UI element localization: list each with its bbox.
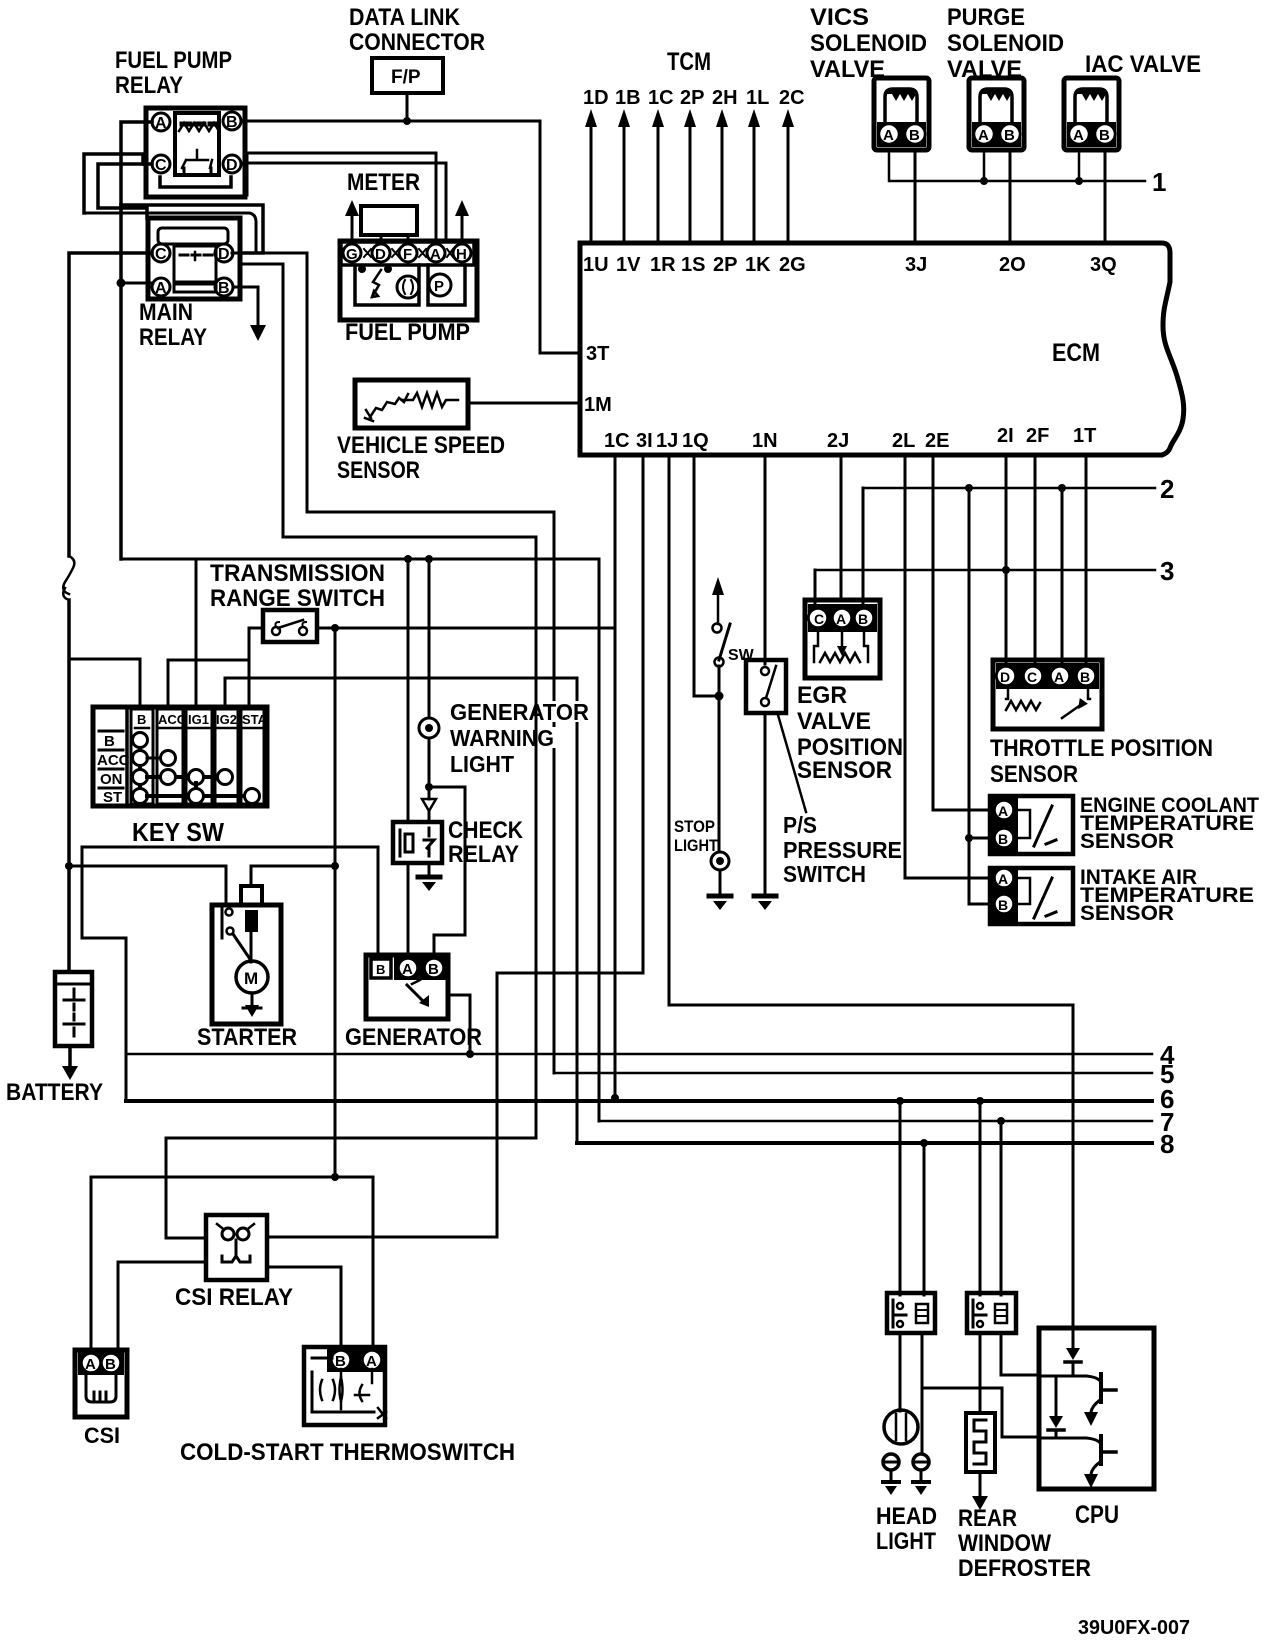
node DLC junction [403, 117, 411, 125]
key switch box [93, 707, 267, 806]
key switch contacts row ST [147, 783, 260, 804]
svg-text:A: A [883, 127, 894, 144]
head light terminal circles [883, 1454, 929, 1470]
svg-text:LIGHT: LIGHT [450, 751, 514, 777]
node TPS A junction [1058, 484, 1066, 492]
head light label [876, 1503, 937, 1555]
svg-text:D: D [218, 246, 230, 263]
fuel pump inner left sub-box [355, 265, 419, 305]
svg-text:B: B [105, 1356, 116, 1373]
TCM label [667, 48, 711, 76]
main relay label [139, 299, 207, 351]
svg-text:DEFROSTER: DEFROSTER [958, 1555, 1091, 1582]
wire CSI-A to TRS corridor and thermoswitch A [91, 1177, 373, 1347]
node 3 label [1160, 556, 1174, 586]
svg-text:1S: 1S [681, 254, 705, 276]
svg-text:RELAY: RELAY [115, 72, 183, 99]
check relay box [393, 822, 442, 863]
main relay pin B [215, 278, 233, 297]
generator label [345, 1024, 482, 1051]
svg-text:1M: 1M [584, 394, 612, 416]
wire head relay coil pin down [921, 1333, 924, 1454]
EGR valve position sensor label [797, 682, 903, 784]
wire FPR-A corridor to key switch row [121, 558, 599, 561]
wire head relay to bulb [899, 1333, 902, 1411]
arrow TCM 1U-1D [585, 109, 597, 243]
node 1C line6 junction [611, 1094, 619, 1102]
svg-text:BATTERY: BATTERY [6, 1079, 103, 1106]
CPU label [1075, 1501, 1119, 1529]
wire CSI relay contact right to thermoswitch B [267, 1267, 341, 1347]
EGR valve position sensor box [805, 600, 880, 678]
wire battery line lower with break [67, 600, 71, 972]
fuel pump pin G [343, 244, 361, 263]
TCM pin labels above arrows [583, 87, 805, 109]
vehicle speed sensor box [355, 380, 468, 428]
generator warning light [419, 718, 439, 738]
svg-text:B: B [218, 280, 230, 297]
svg-text:PURGE: PURGE [947, 4, 1025, 31]
svg-text:2J: 2J [827, 430, 849, 452]
svg-text:1J: 1J [656, 430, 678, 452]
node head relay line6 junction [896, 1097, 904, 1105]
wire gen-B tee into light wire [429, 786, 465, 789]
wire x126 corridor [125, 938, 128, 1101]
main relay pin D [215, 244, 233, 263]
svg-text:1C: 1C [604, 430, 630, 452]
node defroster line6 junction [976, 1097, 984, 1105]
svg-text:G: G [346, 246, 358, 263]
svg-text:B: B [104, 733, 115, 750]
wire key sw ACC to TRS-left line [168, 660, 249, 707]
wire VICS B to ECM 3J [914, 150, 917, 243]
key switch contacts row ON [147, 770, 233, 785]
starter solenoid top rect [241, 886, 262, 905]
diode above check relay [422, 799, 436, 811]
wire generator pin B up to warning light [434, 787, 465, 955]
wire P/S switch down to ground [764, 713, 767, 895]
svg-text:2L: 2L [892, 430, 915, 452]
svg-text:2I: 2I [997, 425, 1014, 447]
node 4 label [1160, 1040, 1175, 1070]
arrow up left of meter [345, 200, 359, 241]
svg-text:3J: 3J [905, 254, 927, 276]
wire corridor x554 down to line 5 [553, 512, 556, 1073]
svg-text:B: B [137, 712, 146, 727]
svg-text:B: B [1004, 127, 1015, 144]
arrow TCM 1K-1L [748, 109, 760, 243]
wire line-B corridor to CSI relay [166, 537, 536, 1238]
ground stop light [709, 896, 731, 910]
node line4 generator junction [466, 1050, 474, 1058]
wire meter stubs [381, 235, 408, 242]
svg-text:1K: 1K [745, 254, 771, 276]
wire purge A stub [983, 150, 986, 181]
svg-text:SENSOR: SENSOR [990, 761, 1078, 788]
wire warning light to check relay [428, 559, 431, 799]
wire TPS A to line 2 [1061, 488, 1064, 663]
svg-text:H: H [456, 246, 467, 263]
node IAC A junction [1075, 177, 1083, 185]
svg-text:SOLENOID: SOLENOID [810, 30, 927, 57]
wire IAC A stub [1078, 150, 1081, 181]
svg-text:1C: 1C [648, 87, 674, 109]
fuel pump pressure circle [429, 274, 451, 296]
wire ECM 1Q down to stop light line [694, 455, 715, 696]
svg-text:KEY SW: KEY SW [132, 817, 224, 847]
main relay inner detail [174, 246, 216, 292]
svg-text:COLD-START THERMOSWITCH: COLD-START THERMOSWITCH [180, 1439, 515, 1466]
wire diode to check relay [428, 811, 431, 822]
line 4 [126, 1053, 1152, 1056]
wire TRS branch down [334, 628, 337, 1177]
wire TPS D from line 3 [1005, 570, 1008, 663]
generator warning light label [447, 699, 592, 777]
svg-text:B: B [1099, 127, 1110, 144]
node 1Q stop light junction [715, 692, 724, 701]
break symbol on battery line [63, 556, 74, 600]
wire CSI A down [90, 1177, 93, 1350]
svg-text:C: C [155, 246, 167, 263]
line 2 [863, 487, 1155, 490]
svg-text:1U: 1U [583, 254, 609, 276]
wire C-outer loop into D row [84, 213, 256, 253]
fuel pump relay label [115, 47, 232, 99]
intake air temperature sensor label [1080, 866, 1254, 925]
node TRS corridor junction [331, 862, 339, 870]
svg-text:3T: 3T [586, 343, 609, 365]
main relay pin C [152, 244, 170, 263]
wire ECM 2E to ECT A [933, 455, 990, 810]
wire sensor ground from line 2 to ECT B and IAT B [969, 488, 990, 904]
svg-text:TRANSMISSION: TRANSMISSION [210, 560, 385, 587]
wire head relay contact from line 8 [923, 1143, 926, 1295]
fuel pump relay pin B [223, 112, 241, 131]
stop light bulb [711, 852, 729, 870]
line 3 [815, 569, 1155, 572]
svg-text:P: P [434, 278, 444, 295]
PURGE solenoid valve [969, 78, 1024, 150]
svg-text:VEHICLE SPEED: VEHICLE SPEED [337, 432, 505, 459]
wire A-net to main relay D [121, 205, 263, 253]
CPU Q1 base rail [1040, 1375, 1086, 1378]
fuel pump relay box [146, 108, 245, 197]
ECM bottom pin labels [604, 425, 1096, 452]
svg-text:GENERATOR: GENERATOR [450, 699, 589, 725]
fuel pump sender symbol [358, 265, 392, 297]
node check relay junction [425, 555, 433, 563]
line 6 [126, 1099, 1152, 1103]
VICS solenoid valve label [810, 4, 927, 83]
svg-text:F: F [403, 246, 412, 263]
key switch header underlines [135, 727, 263, 730]
main relay pin A [152, 278, 170, 297]
svg-text:METER: METER [347, 169, 420, 196]
fuel pump relay pin A [152, 113, 170, 132]
node 2I junction [1002, 566, 1010, 574]
generator pin A [399, 959, 418, 979]
wire key sw IG1 up corridor [195, 559, 198, 707]
node TRS corridor bottom junction [331, 1173, 339, 1181]
wire fuel pump relay D to fuel pump [241, 163, 446, 241]
throttle position sensor box [993, 660, 1102, 729]
node 1 label [1152, 167, 1166, 197]
data link connector F/P box [372, 58, 443, 93]
node 2 label [1160, 474, 1174, 504]
wire main relay D row to line-A corridor [232, 253, 554, 512]
svg-text:B: B [998, 897, 1008, 913]
wire TRS left to key sw STA [249, 628, 263, 707]
VICS solenoid valve [874, 78, 929, 150]
wire PURGE B to ECM 2O [1009, 150, 1012, 243]
fuel pump relay pin C [152, 155, 170, 174]
wire starter solenoid rect feed [250, 866, 253, 886]
wire ECM 2L to IAT A [905, 455, 990, 878]
svg-text:CSI RELAY: CSI RELAY [175, 1284, 293, 1311]
generator internal symbol [407, 980, 429, 1007]
svg-text:ST: ST [103, 789, 122, 806]
svg-text:B: B [376, 962, 385, 977]
svg-text:REAR: REAR [958, 1505, 1017, 1532]
wire ECM 1N to P/S switch [764, 455, 767, 664]
fuel pump relay pin D [223, 155, 241, 174]
check relay label [446, 817, 528, 868]
arrow TCM 1R-1C [652, 109, 664, 243]
svg-text:PRESSURE: PRESSURE [783, 837, 902, 863]
node 5 label [1160, 1059, 1174, 1089]
svg-text:1Q: 1Q [682, 430, 709, 452]
transmission range switch box [263, 610, 317, 642]
svg-text:CONNECTOR: CONNECTOR [349, 29, 485, 56]
wire defroster contact from line 6 [979, 1101, 982, 1295]
svg-text:THROTTLE POSITION: THROTTLE POSITION [990, 735, 1213, 762]
ground head light left [883, 1470, 899, 1495]
svg-text:F/P: F/P [391, 67, 421, 88]
svg-text:A: A [430, 246, 441, 263]
svg-text:1V: 1V [616, 254, 641, 276]
svg-text:CSI: CSI [84, 1423, 120, 1448]
throttle position sensor label [990, 735, 1213, 788]
svg-text:GENERATOR: GENERATOR [345, 1024, 482, 1051]
wire ECM 1J down to CPU feed [669, 455, 1073, 1348]
wire battery branch to starter [69, 866, 226, 905]
svg-text:ACC: ACC [158, 712, 187, 727]
ECM box [580, 243, 1184, 455]
generator box [366, 955, 448, 1019]
fuel pump relay inner coil box [175, 113, 219, 175]
svg-text:2H: 2H [712, 87, 738, 109]
svg-text:2G: 2G [779, 254, 806, 276]
svg-text:RELAY: RELAY [139, 324, 207, 351]
wire ECM 2F to TPS C [1034, 455, 1037, 663]
arrow below main relay [250, 325, 266, 341]
fuel pump connector box [340, 241, 477, 320]
node defroster line7 junction [997, 1117, 1005, 1125]
IAC valve label [1085, 51, 1201, 78]
svg-text:LIGHT: LIGHT [876, 1528, 936, 1555]
svg-text:C: C [155, 157, 167, 174]
CPU transistor Q2 [1084, 1436, 1116, 1488]
svg-text:DATA LINK: DATA LINK [349, 4, 461, 31]
svg-text:2F: 2F [1026, 425, 1049, 447]
wire VSS to ECM 1M [468, 402, 580, 405]
wire CSI relay contact left to CSI B [118, 1262, 206, 1350]
svg-text:3: 3 [1160, 556, 1174, 586]
head light relay box [887, 1293, 935, 1333]
svg-text:2C: 2C [779, 87, 805, 109]
svg-text:WARNING: WARNING [450, 725, 554, 751]
svg-text:VALVE: VALVE [797, 708, 871, 735]
fuel pump relay inner bottom U [160, 177, 231, 187]
wire fuel pump relay A left and down [121, 122, 152, 559]
node main relay A junction [117, 279, 126, 288]
node head relay line8 junction [920, 1139, 928, 1147]
wire fuel pump relay C left [98, 164, 152, 218]
vehicle speed sensor label [337, 432, 505, 484]
fuel pump pin F [399, 244, 417, 263]
wire EGR C up to line 3 [814, 570, 817, 608]
node 6 label [1160, 1084, 1174, 1114]
wire generator output to line 4 [448, 995, 470, 1054]
svg-text:B: B [226, 114, 238, 131]
transmission range switch label [210, 560, 385, 612]
SW label [728, 647, 755, 664]
wire starter solenoid to TRS corridor [251, 865, 335, 868]
key switch row labels [97, 733, 130, 806]
wire main relay contact to line-B corridor [240, 264, 283, 537]
svg-text:A: A [155, 280, 167, 297]
svg-text:IAC VALVE: IAC VALVE [1085, 51, 1201, 78]
ground below check relay [418, 863, 440, 891]
svg-text:C: C [1027, 669, 1037, 685]
wire battery web left leg [82, 847, 126, 938]
svg-text:39U0FX-007: 39U0FX-007 [1078, 1617, 1190, 1639]
stop light switch [713, 624, 731, 667]
wire line-B top run [283, 536, 536, 539]
wire corridor x599 down to line 7 [598, 559, 601, 1121]
wire key sw IG2 to corridor x577 [225, 678, 577, 707]
svg-text:IG2: IG2 [216, 712, 237, 727]
svg-text:SENSOR: SENSOR [1080, 902, 1174, 925]
svg-text:A: A [978, 127, 989, 144]
CPU diode 2 [1048, 1376, 1064, 1438]
data link connector label [349, 4, 485, 56]
wire element to ground [979, 1472, 982, 1496]
arrow TCM 2G-2C [782, 109, 794, 243]
starter box [212, 905, 281, 1024]
arrow up right of fuel pump [455, 200, 469, 241]
node warning light junction [404, 555, 412, 563]
svg-text:D: D [375, 246, 386, 263]
svg-text:A: A [402, 961, 413, 978]
wire stop light to ground [719, 870, 722, 895]
wire head coil branch to CPU [922, 1388, 1040, 1437]
wire DLC down to B-net [406, 93, 409, 121]
P/S pressure switch label leader [778, 715, 806, 812]
svg-text:LIGHT: LIGHT [674, 836, 719, 855]
svg-text:A: A [366, 1353, 377, 1370]
svg-text:2: 2 [1160, 474, 1174, 504]
svg-text:HEAD: HEAD [876, 1503, 937, 1530]
svg-text:C: C [814, 611, 824, 627]
generator B square pin [371, 959, 391, 978]
svg-text:P/S: P/S [783, 812, 817, 838]
wire gen-B line from battery web [82, 847, 378, 955]
wire main relay A to A-net [121, 282, 153, 285]
ground defroster [972, 1496, 988, 1510]
svg-text:VICS: VICS [810, 4, 869, 31]
drawing number [1078, 1617, 1190, 1639]
svg-text:WINDOW: WINDOW [958, 1530, 1051, 1557]
svg-text:ACC: ACC [97, 752, 130, 769]
node gen-B tee [425, 783, 433, 791]
wire fuel-pump feed upper [247, 153, 436, 241]
svg-text:IG1: IG1 [188, 712, 209, 727]
svg-text:D: D [226, 157, 238, 174]
wire ECM 1T to TPS B [1085, 455, 1088, 663]
rear window defroster element [966, 1413, 995, 1472]
CPU Q2 base rail [1040, 1437, 1086, 1440]
line 5 [554, 1072, 1152, 1075]
fuel pump pin H [453, 244, 471, 263]
svg-text:1L: 1L [746, 87, 769, 109]
svg-text:SWITCH: SWITCH [783, 861, 866, 887]
CSI relay box [206, 1215, 267, 1280]
CSI label [84, 1423, 120, 1448]
line 8 [577, 1141, 1152, 1145]
node purge A junction [980, 177, 988, 185]
key switch row separators [99, 731, 123, 788]
node 7 label [1160, 1107, 1174, 1137]
svg-text:STOP: STOP [674, 817, 715, 836]
node TRS branch junction [331, 624, 339, 632]
svg-text:TCM: TCM [667, 48, 711, 76]
svg-text:A: A [836, 611, 846, 627]
svg-text:A: A [1054, 669, 1064, 685]
svg-text:3I: 3I [636, 430, 653, 452]
svg-text:B: B [1080, 669, 1090, 685]
meter label [347, 169, 420, 196]
main relay box [148, 218, 240, 299]
node sensor ground line2 junction [965, 484, 973, 492]
engine coolant temperature sensor label [1080, 794, 1259, 853]
wire defroster relay to element [979, 1333, 982, 1413]
fuel pump motor circle [397, 276, 419, 298]
svg-text:D: D [1000, 669, 1010, 685]
IAC valve connector [1064, 78, 1119, 150]
svg-text:SENSOR: SENSOR [1080, 830, 1174, 853]
fuel pump pin A [427, 244, 445, 263]
battery arrow [62, 1046, 78, 1080]
svg-text:A: A [1073, 127, 1084, 144]
generator pin row [394, 955, 448, 980]
rear window defroster relay box [967, 1293, 1016, 1333]
svg-text:1N: 1N [752, 430, 778, 452]
key switch contacts column B [133, 733, 148, 804]
fuel pump inner right sub-box [428, 265, 465, 305]
svg-text:2P: 2P [713, 254, 737, 276]
wire ECM 2I to line 3 [1005, 455, 1008, 570]
wire TRS right to ECM 1C corridor [317, 627, 615, 630]
cold-start thermoswitch label [180, 1439, 515, 1466]
CSI connector [75, 1350, 127, 1417]
arrow TCM 2P-2H [716, 109, 728, 243]
svg-text:ECM: ECM [1052, 339, 1100, 367]
svg-text:1T: 1T [1073, 425, 1096, 447]
P/S pressure switch box [746, 660, 786, 713]
key switch column sub-boxes [125, 707, 129, 806]
node battery starter junction [65, 862, 73, 870]
